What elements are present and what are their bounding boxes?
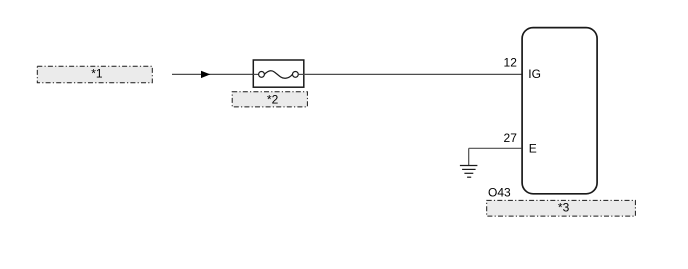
svg-text:*1: *1 (91, 67, 103, 81)
svg-text:12: 12 (504, 56, 518, 70)
svg-text:27: 27 (504, 131, 518, 145)
svg-text:*3: *3 (558, 201, 570, 215)
svg-text:O43: O43 (488, 186, 511, 200)
svg-text:*2: *2 (267, 93, 279, 107)
svg-text:E: E (529, 142, 537, 156)
svg-text:IG: IG (528, 67, 541, 81)
